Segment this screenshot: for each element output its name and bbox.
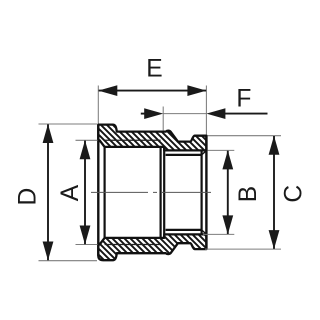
svg-text:E: E <box>146 55 162 82</box>
svg-text:F: F <box>236 85 251 112</box>
svg-text:D: D <box>14 188 41 206</box>
svg-text:A: A <box>57 184 84 201</box>
svg-text:C: C <box>281 185 308 203</box>
svg-text:B: B <box>235 186 262 202</box>
